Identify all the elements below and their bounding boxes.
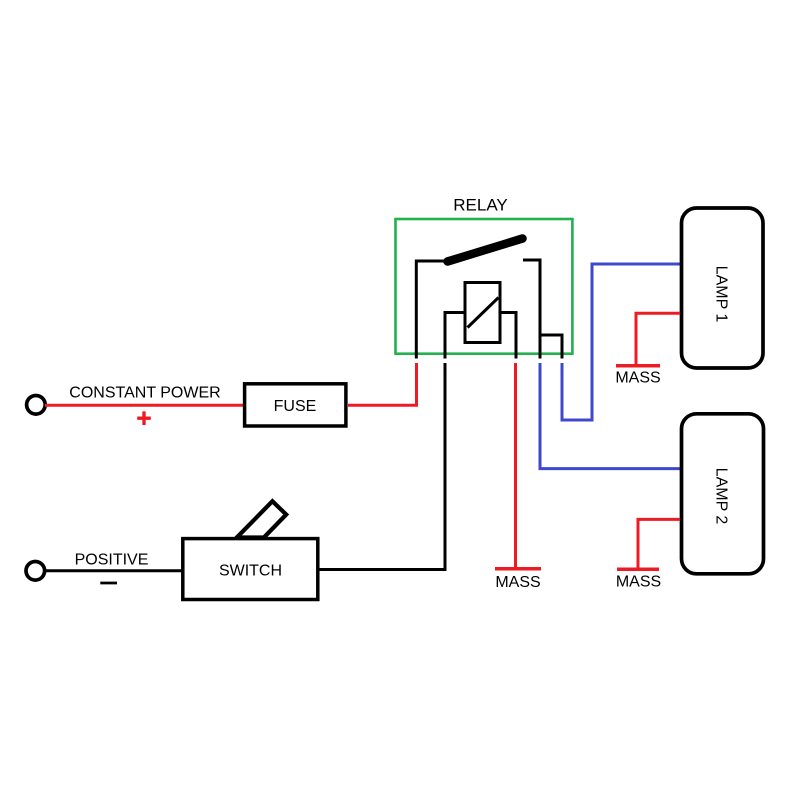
wire: red from fuse to relay pin 30 bbox=[348, 363, 417, 405]
svg-text:FUSE: FUSE bbox=[274, 398, 317, 415]
svg-text:MASS: MASS bbox=[616, 574, 661, 591]
node: positive terminal bbox=[26, 562, 45, 581]
lamp LAMP 2 (rounded box) bbox=[682, 414, 764, 574]
wire: red lamp 2 to mass bbox=[638, 519, 680, 567]
label + (positive polarity) bbox=[137, 411, 151, 425]
wire: blue from relay to lamp 1 bbox=[562, 264, 680, 420]
wire: red lamp 1 to mass bbox=[636, 313, 680, 364]
ground: lamp 1 MASS bar bbox=[616, 364, 660, 368]
svg-text:RELAY: RELAY bbox=[453, 196, 508, 215]
node: constant power terminal bbox=[27, 396, 46, 415]
wire: blue from relay to lamp 2 bbox=[540, 363, 680, 469]
relay enclosure (green box) bbox=[396, 219, 573, 354]
svg-text:SWITCH: SWITCH bbox=[219, 563, 282, 580]
wire: red relay coil to mass bbox=[514, 363, 517, 567]
wire: red from constant power terminal to fuse bbox=[45, 404, 243, 407]
svg-text:LAMP 1: LAMP 1 bbox=[712, 266, 729, 323]
relay NO contact with pin bbox=[523, 260, 540, 359]
relay coil terminal left (pin 86) bbox=[445, 313, 465, 359]
ground: relay MASS bar bbox=[495, 567, 541, 571]
wire: black from positive terminal to switch bbox=[45, 569, 183, 572]
fuse FUSE (box) bbox=[245, 384, 346, 426]
relay armature (thick switch blade) bbox=[448, 239, 523, 262]
svg-text:MASS: MASS bbox=[495, 574, 540, 591]
switch SWITCH (box) bbox=[183, 539, 318, 600]
relay coil (rect with diagonal) bbox=[465, 283, 500, 343]
lamp LAMP 1 (rounded box) bbox=[682, 208, 764, 368]
wire: black from relay coil to switch bbox=[319, 363, 445, 570]
label - (negative polarity) bbox=[100, 582, 117, 585]
relay common contact with pin bbox=[416, 261, 446, 359]
relay coil terminal right (pin 85) bbox=[500, 313, 516, 359]
svg-text:POSITIVE: POSITIVE bbox=[75, 552, 149, 569]
svg-text:MASS: MASS bbox=[615, 370, 660, 387]
svg-text:LAMP 2: LAMP 2 bbox=[712, 468, 729, 525]
ground: lamp 2 MASS bar bbox=[617, 568, 659, 572]
svg-text:CONSTANT POWER: CONSTANT POWER bbox=[69, 385, 220, 402]
relay output branch pin bbox=[540, 335, 562, 359]
switch lever (toggle) bbox=[237, 501, 286, 537]
